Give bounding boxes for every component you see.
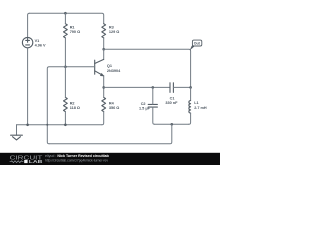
Q1 emitter arrowhead bbox=[100, 73, 103, 76]
capacitor C2 bbox=[148, 104, 157, 107]
svg-text:Q1: Q1 bbox=[107, 64, 112, 68]
svg-text:129 Ω: 129 Ω bbox=[109, 30, 119, 34]
ground bbox=[11, 125, 23, 140]
wire: L1 bottom lead to tank rail bbox=[189, 113, 191, 124]
wire: C2 bottom lead to tank rail bbox=[153, 107, 155, 124]
resistor R1 bbox=[64, 24, 68, 38]
node: R2 ground junction bbox=[64, 124, 67, 127]
wire: C1 right plate to right column bbox=[173, 86, 190, 88]
svg-text:LAB: LAB bbox=[29, 159, 43, 164]
wire: right column down to L1 bbox=[190, 87, 192, 100]
svg-text:C1: C1 bbox=[170, 96, 175, 100]
node: right column junction bbox=[189, 86, 192, 89]
node: C2 top junction bbox=[152, 86, 155, 89]
wire: lower return rail bbox=[49, 124, 172, 144]
wire: R4 top lead from emitter node bbox=[103, 87, 105, 97]
svg-text:2N3904: 2N3904 bbox=[107, 69, 121, 73]
logo zigzag bbox=[10, 161, 24, 163]
node: V1 ground junction bbox=[26, 124, 29, 127]
svg-text:330 nF: 330 nF bbox=[165, 101, 178, 105]
wire: base wire from divider to Q1 bbox=[65, 66, 94, 68]
wire: R1 top lead bbox=[64, 13, 66, 24]
svg-text:790 Ω: 790 Ω bbox=[70, 30, 80, 34]
wire: collector rail to Out corner bbox=[104, 49, 191, 87]
svg-text:2.7 mH: 2.7 mH bbox=[194, 106, 207, 110]
svg-text:L1: L1 bbox=[194, 101, 198, 105]
svg-text:C2: C2 bbox=[141, 102, 146, 106]
node: top rail / R1 junction bbox=[64, 12, 67, 15]
Q1 collector diagonal bbox=[95, 59, 104, 63]
flag Out bbox=[190, 40, 202, 50]
wire: top rail bbox=[29, 13, 103, 24]
footer bar bbox=[0, 153, 220, 165]
svg-text:356 Ω: 356 Ω bbox=[109, 106, 119, 110]
voltage source V1 bbox=[22, 37, 32, 47]
node: emitter junction bbox=[102, 86, 105, 89]
svg-text:118 Ω: 118 Ω bbox=[70, 106, 80, 110]
svg-text:1.5 μF: 1.5 μF bbox=[139, 107, 151, 111]
wire: R2 bottom lead bbox=[64, 112, 66, 125]
wire: V1 bottom lead to ground rail bbox=[27, 48, 29, 125]
transistor Q1 bbox=[95, 49, 104, 87]
svg-text:Out: Out bbox=[194, 42, 201, 46]
Q1 collector lead bbox=[103, 49, 105, 59]
svg-text:http://circuitlab.com/c/7pq4k/: http://circuitlab.com/c/7pq4k/nick-turne… bbox=[45, 158, 108, 162]
wire: emitter wire to C1 left plate bbox=[104, 86, 170, 88]
wire: ground rail bbox=[17, 124, 102, 126]
capacitor C1 bbox=[170, 83, 173, 93]
wire: tank bottom rail bbox=[155, 123, 189, 125]
wire: R2 top lead bbox=[64, 67, 66, 98]
svg-text:4.96 V: 4.96 V bbox=[35, 44, 46, 48]
logo square bbox=[24, 160, 27, 163]
wire: feedback from base node down and across bbox=[47, 67, 65, 144]
Q1 emitter lead bbox=[103, 76, 105, 88]
node: base junction bbox=[64, 66, 67, 69]
svg-text:R2: R2 bbox=[70, 101, 75, 105]
resistor R4 bbox=[102, 97, 106, 111]
node: crossing bump at ground rail bbox=[46, 124, 48, 126]
wire: R3 bottom lead to collector rail bbox=[103, 38, 105, 49]
inductor L1 bbox=[189, 101, 191, 114]
node: collector rail junction bbox=[102, 48, 105, 51]
resistor R3 bbox=[102, 24, 106, 38]
wire: C2 top lead bbox=[152, 87, 154, 104]
resistor R2 bbox=[64, 97, 68, 111]
wire: R4 bottom lead bbox=[102, 112, 104, 125]
Q1 emitter diagonal bbox=[95, 71, 104, 76]
svg-text:V1: V1 bbox=[35, 39, 40, 43]
wire: V1 top lead up to top rail bbox=[28, 13, 30, 37]
node: tank rail / feedback junction bbox=[171, 123, 174, 126]
Q1 base bar bbox=[94, 60, 96, 74]
wire: R1 bottom lead to base node bbox=[64, 38, 66, 67]
svg-text:R1: R1 bbox=[70, 25, 75, 29]
svg-text:R3: R3 bbox=[109, 25, 114, 29]
